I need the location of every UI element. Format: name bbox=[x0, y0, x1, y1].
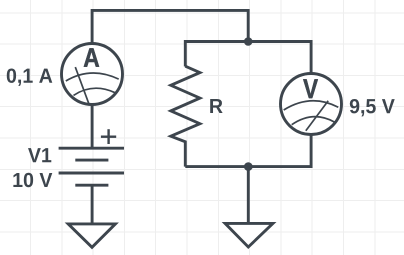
voltmeter scale lower arc bbox=[292, 117, 335, 125]
wire: middle horizontal rail, resistor top to voltmeter top bbox=[185, 42, 311, 73]
ammeter reading label 0,1 A bbox=[7, 68, 53, 85]
node junction dot bottom bbox=[244, 162, 253, 171]
ground symbol left bbox=[68, 224, 115, 247]
voltmeter scale upper arc bbox=[284, 101, 339, 110]
wire: ammeter bottom terminal to battery top plate bbox=[91, 104, 94, 148]
wire: bottom node down to right ground bbox=[247, 167, 250, 223]
voltmeter reading label 9,5 V bbox=[350, 99, 395, 116]
wire: battery bottom to left ground bbox=[91, 185, 94, 222]
battery V1 plus sign bbox=[101, 129, 116, 144]
battery V1 plates bbox=[59, 148, 124, 185]
ammeter circle bbox=[62, 44, 123, 105]
node junction dot top bbox=[244, 37, 253, 46]
voltmeter circle bbox=[281, 74, 342, 135]
voltmeter letter V bbox=[303, 79, 318, 98]
ammeter scale lower arc bbox=[74, 88, 116, 95]
voltmeter needle bbox=[306, 101, 328, 131]
wire: bottom horizontal rail, resistor bottom to voltmeter bottom bbox=[185, 135, 311, 167]
ammeter scale upper arc bbox=[66, 73, 119, 81]
ammeter letter A bbox=[84, 48, 99, 66]
resistor label R bbox=[210, 99, 222, 113]
resistor R zigzag bbox=[171, 66, 200, 166]
battery name label V1 bbox=[28, 148, 51, 162]
ammeter needle bbox=[75, 67, 89, 105]
wire: ammeter top terminal up and across to top node bbox=[92, 10, 248, 43]
battery value label 10 V bbox=[13, 173, 52, 187]
ground symbol right bbox=[225, 223, 273, 247]
